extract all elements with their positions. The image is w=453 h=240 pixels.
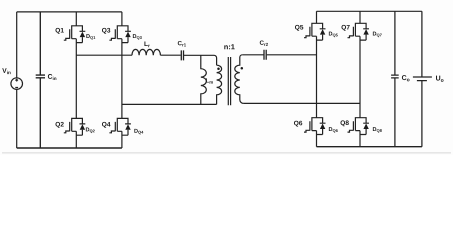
capacitor Cr2 [264, 50, 266, 60]
label Q6 [294, 121, 302, 127]
label Lm [206, 78, 213, 83]
wire: secondary bottom to right leg B midpoint [244, 102, 360, 104]
label DQ1 [86, 34, 95, 40]
wire: right leg A [316, 11, 318, 146]
label Q1 [55, 28, 63, 34]
wire: left leg B [121, 12, 123, 148]
label n:1 [224, 44, 234, 49]
label DQ2 [86, 128, 95, 134]
label Q5 [295, 25, 303, 31]
capacitor Co [391, 11, 399, 146]
label DQ7 [373, 32, 382, 38]
label Q8 [340, 120, 348, 126]
label DQ6 [329, 127, 338, 133]
source Vin circle [11, 78, 23, 90]
label Cr2 [260, 40, 268, 45]
label Q7 [341, 25, 349, 31]
transistor Q4 [109, 118, 130, 135]
wire: Vin branch lower [16, 89, 18, 148]
transformer secondary winding [235, 55, 244, 104]
node dot primary [217, 68, 220, 71]
inductor Lr [132, 49, 160, 55]
label Vin [2, 68, 10, 74]
transistor Q1 [64, 26, 86, 43]
transistor Q2 [64, 118, 86, 135]
battery Uo [413, 11, 432, 146]
transistor Q5 [304, 23, 326, 40]
label DQ5 [329, 32, 338, 38]
transistor Q3 [109, 26, 130, 43]
wire: Cr1 to transformer primary top [184, 55, 217, 65]
label DQ3 [133, 34, 142, 40]
wire: left top rail [17, 11, 122, 13]
transformer core [228, 57, 230, 105]
label Cin [48, 74, 56, 80]
node dot secondary [241, 67, 244, 70]
wire: right leg B [359, 11, 361, 146]
wire: Vin branch upper [16, 12, 18, 78]
transformer primary winding [217, 65, 222, 104]
bottom scan smudge [2, 152, 451, 154]
label Q3 [102, 28, 110, 34]
wire: secondary top to Cr2 [242, 54, 263, 56]
label DQ4 [134, 129, 143, 135]
transistor Q7 [348, 23, 370, 40]
label Lr [144, 41, 149, 47]
capacitor Cr1 [181, 50, 183, 60]
wire: Lr to Cr1 [160, 54, 180, 56]
wire: right top rail [317, 10, 422, 12]
transistor Q6 [304, 118, 326, 135]
label Q2 [55, 122, 63, 128]
inductor Lm [201, 55, 206, 104]
capacitor Cin [36, 12, 45, 148]
label Q4 [102, 122, 111, 128]
wire: left leg A [75, 12, 77, 148]
transistor Q8 [348, 118, 370, 135]
label Cr1 [178, 41, 186, 46]
label Co [402, 75, 410, 81]
label DQ8 [373, 127, 382, 133]
wire: primary bottom to leg B [122, 103, 217, 105]
label Uo [436, 76, 443, 82]
wire: leg A midpoint to Lr [76, 54, 132, 56]
wire: left bottom rail [17, 147, 122, 149]
wire: Cr2 to right leg A midpoint [267, 54, 317, 56]
wire: right bottom rail [317, 146, 422, 148]
